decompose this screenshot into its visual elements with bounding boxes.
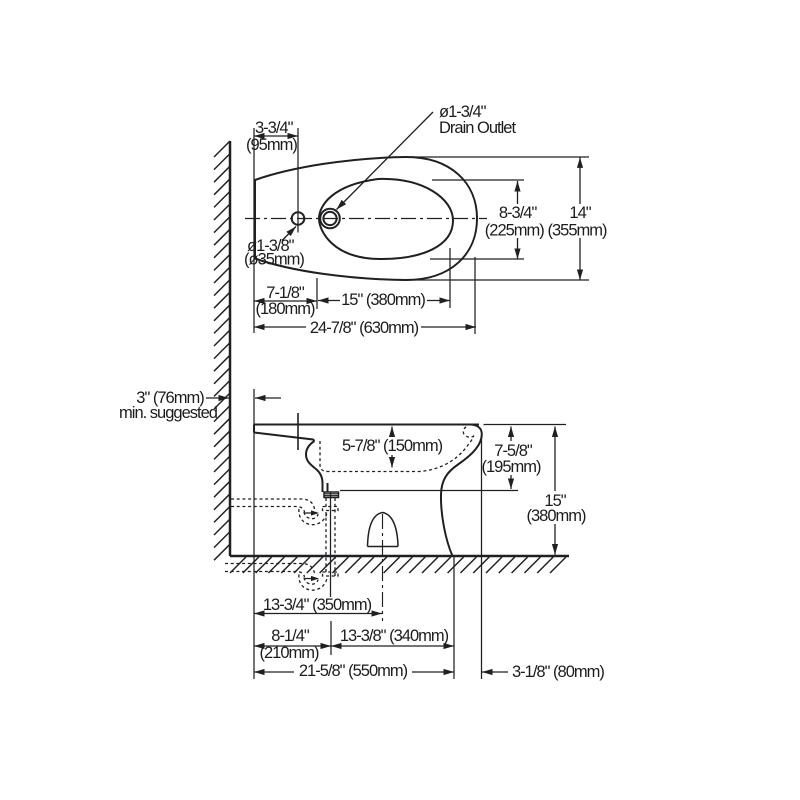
svg-text:(225mm): (225mm) bbox=[485, 222, 545, 240]
svg-text:8-3/4": 8-3/4" bbox=[499, 204, 538, 222]
svg-text:3-1/8" (80mm): 3-1/8" (80mm) bbox=[512, 663, 604, 681]
svg-text:13-3/4" (350mm): 13-3/4" (350mm) bbox=[263, 596, 372, 614]
svg-text:21-5/8" (550mm): 21-5/8" (550mm) bbox=[299, 662, 408, 680]
svg-text:(210mm): (210mm) bbox=[259, 644, 319, 662]
svg-text:13-3/8" (340mm): 13-3/8" (340mm) bbox=[340, 627, 449, 645]
svg-text:24-7/8" (630mm): 24-7/8" (630mm) bbox=[310, 319, 419, 337]
svg-text:3-3/4": 3-3/4" bbox=[255, 119, 294, 137]
svg-text:5-7/8" (150mm): 5-7/8" (150mm) bbox=[342, 437, 443, 455]
svg-text:(355mm): (355mm) bbox=[547, 222, 607, 240]
svg-text:Drain Outlet: Drain Outlet bbox=[439, 119, 516, 137]
svg-text:15" (380mm): 15" (380mm) bbox=[341, 291, 425, 309]
svg-text:(380mm): (380mm) bbox=[526, 507, 586, 525]
svg-text:min. suggested: min. suggested bbox=[119, 404, 218, 422]
svg-text:(95mm): (95mm) bbox=[246, 136, 297, 154]
svg-text:(180mm): (180mm) bbox=[255, 300, 315, 318]
svg-text:(195mm): (195mm) bbox=[481, 458, 541, 476]
svg-text:14": 14" bbox=[569, 204, 591, 222]
svg-text:8-1/4": 8-1/4" bbox=[271, 627, 310, 645]
svg-text:(ø35mm): (ø35mm) bbox=[244, 251, 304, 269]
